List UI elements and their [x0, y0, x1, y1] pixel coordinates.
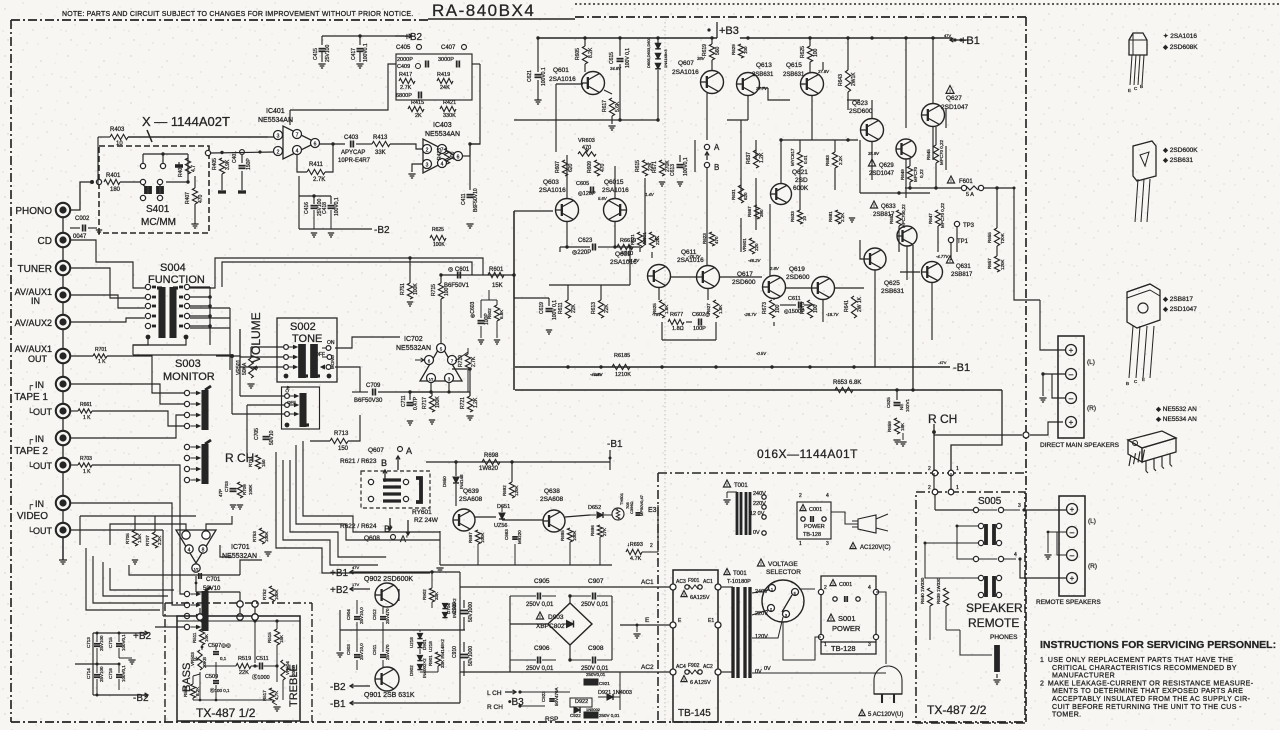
- svg-text:-B2: -B2: [330, 682, 346, 693]
- svg-text:R752: R752: [262, 589, 267, 600]
- svg-text:-B2: -B2: [374, 225, 390, 236]
- svg-text:E: E: [794, 591, 797, 596]
- AC plug (C): [858, 515, 876, 533]
- svg-text:-46.2V: -46.2V: [748, 258, 762, 263]
- svg-text:Ⓞ100 0,1: Ⓞ100 0,1: [210, 687, 230, 694]
- svg-text:R625: R625: [800, 46, 806, 58]
- svg-text:CUIT BEFORE RETURNING THE: CUIT BEFORE RETURNING THE UNIT TO THE CU…: [1052, 704, 1242, 711]
- svg-text:2SB631: 2SB631: [881, 288, 905, 295]
- svg-text:100V0.1: 100V0.1: [541, 67, 547, 86]
- svg-text:100V0,1: 100V0,1: [121, 634, 126, 651]
- svg-text:-B2: -B2: [133, 693, 149, 704]
- wire into tone box top: [237, 601, 243, 607]
- terminal minus L: [1066, 369, 1077, 380]
- svg-text:10: 10: [802, 215, 807, 221]
- svg-text:NE5532AN: NE5532AN: [396, 345, 431, 352]
- svg-text:R649: R649: [900, 169, 905, 180]
- svg-text:1.8K: 1.8K: [664, 305, 669, 314]
- svg-text:24K: 24K: [440, 85, 450, 91]
- svg-text:R698: R698: [484, 453, 499, 459]
- svg-text:R419: R419: [437, 72, 450, 78]
- svg-text:R601: R601: [489, 267, 504, 273]
- resistor R640 1W330: [927, 588, 932, 606]
- border top-left dash-dot: [11, 19, 428, 21]
- jack TAPE2 IN: [56, 431, 70, 445]
- svg-text:!: !: [873, 203, 874, 208]
- svg-text:2: 2: [928, 466, 931, 472]
- wire regulator rails: [370, 571, 460, 573]
- resistor R623 470: [709, 232, 714, 246]
- svg-text:4: 4: [296, 149, 299, 155]
- svg-text:MONITOR: MONITOR: [163, 371, 215, 383]
- wire Q623 base: [781, 139, 858, 141]
- svg-text:C403: C403: [344, 135, 359, 141]
- wire B2 block: [93, 632, 130, 634]
- VR503 20KB: [198, 650, 202, 670]
- svg-text:33K: 33K: [434, 592, 439, 600]
- svg-text:REMOTE: REMOTE: [968, 616, 1019, 630]
- svg-text:6 A125V: 6 A125V: [690, 680, 711, 686]
- svg-text:R401: R401: [106, 173, 121, 179]
- svg-text:TB-128: TB-128: [831, 644, 856, 653]
- S003 upper contacts: [184, 390, 189, 395]
- svg-text:!: !: [726, 571, 727, 575]
- svg-text:R503: R503: [183, 686, 188, 697]
- svg-text:0,22: 0,22: [919, 169, 924, 178]
- package TO-126 drawing: [1133, 141, 1156, 181]
- svg-text:◎220P: ◎220P: [572, 250, 591, 256]
- test point TP1: [948, 237, 953, 242]
- svg-text:100K: 100K: [413, 283, 419, 295]
- svg-text:VR601: VR601: [742, 238, 747, 252]
- svg-text:Q638: Q638: [544, 488, 560, 495]
- svg-text:AC2: AC2: [641, 664, 654, 671]
- svg-text:10K: 10K: [204, 634, 209, 642]
- svg-text:-11.7V: -11.7V: [627, 258, 640, 263]
- svg-text:27K: 27K: [602, 528, 607, 536]
- resistor R603 6.8K: [494, 305, 499, 321]
- svg-text:R675: R675: [800, 302, 806, 314]
- svg-text:D903: D903: [548, 614, 564, 621]
- svg-text:330K: 330K: [443, 113, 456, 119]
- svg-text:IC403: IC403: [433, 122, 452, 129]
- svg-text:RSP: RSP: [545, 716, 558, 723]
- S005 relay lower: [978, 575, 983, 580]
- svg-text:MPC70 0,22: MPC70 0,22: [939, 139, 944, 165]
- svg-text:C619: C619: [539, 302, 545, 314]
- svg-text:22K: 22K: [604, 303, 610, 313]
- svg-text:25V100: 25V100: [99, 666, 104, 682]
- jack AV/AUX1 OUT: [56, 349, 70, 363]
- svg-text:C906: C906: [534, 645, 550, 652]
- svg-text:R519: R519: [238, 656, 251, 662]
- svg-text:C001: C001: [839, 582, 852, 588]
- S401 contacts: [140, 163, 145, 168]
- resistor R613 22K: [598, 300, 603, 318]
- svg-text:C921: C921: [599, 681, 610, 686]
- svg-text:!: !: [760, 561, 761, 566]
- svg-text:-B1: -B1: [607, 439, 623, 450]
- svg-text:-4.77V: -4.77V: [936, 254, 950, 259]
- dash-dot to tone box: [165, 602, 312, 604]
- relay actuator: [416, 478, 421, 502]
- svg-text:Q629: Q629: [879, 163, 894, 169]
- svg-text:R901: R901: [428, 655, 433, 666]
- svg-text:Q615: Q615: [786, 62, 802, 69]
- wire L speaker: [1040, 300, 1065, 350]
- resistor R902 33K: [429, 588, 434, 602]
- resistor R405: [219, 158, 224, 174]
- svg-text:100P: 100P: [693, 326, 706, 332]
- svg-text:2SA1016: 2SA1016: [672, 69, 699, 76]
- svg-text:+B2: +B2: [133, 631, 152, 642]
- svg-text:R607: R607: [555, 161, 561, 173]
- svg-text:TH501: TH501: [619, 492, 624, 505]
- svg-text:┌: ┌: [27, 500, 33, 510]
- svg-text:8.2K: 8.2K: [195, 687, 200, 696]
- svg-text:0V: 0V: [753, 530, 760, 536]
- svg-text:RY601: RY601: [412, 509, 432, 516]
- wire R speaker: [1025, 432, 1027, 438]
- svg-text:R423: R423: [437, 148, 443, 160]
- VR601 220: [649, 232, 654, 248]
- svg-text:C903: C903: [346, 644, 351, 655]
- svg-text:-76.7V: -76.7V: [688, 254, 702, 259]
- resistor R671 270K: [659, 160, 664, 176]
- warning 6A125V: [681, 591, 687, 597]
- relay bars: [383, 478, 401, 481]
- svg-text:POWER: POWER: [832, 624, 861, 633]
- svg-text:R625: R625: [432, 227, 444, 233]
- voltage selector circle: [762, 580, 804, 622]
- svg-text:Q902 2SD600K: Q902 2SD600K: [364, 576, 413, 583]
- resistor R607 620: [562, 160, 567, 176]
- svg-text:4: 4: [826, 493, 829, 499]
- svg-text:R605: R605: [575, 48, 581, 60]
- svg-text:1: 1: [956, 466, 959, 472]
- TX-487 2/2 box: [916, 492, 1025, 723]
- svg-text:R515: R515: [267, 632, 272, 643]
- svg-text:6A125V: 6A125V: [690, 595, 710, 601]
- wire output devices: [871, 142, 873, 180]
- svg-text:B: B: [1140, 84, 1143, 89]
- S003 lower contacts: [184, 444, 189, 449]
- tone box entry circles: [197, 614, 203, 620]
- svg-text:2: 2: [277, 150, 280, 156]
- TB-145 terminals AC4-AC2: [670, 669, 676, 675]
- border top-right dotted: [575, 3, 1280, 5]
- phones jack: [994, 645, 1000, 672]
- A B contacts: [704, 144, 709, 149]
- svg-text:R415: R415: [411, 100, 424, 106]
- svg-text:D704: D704: [446, 603, 451, 614]
- resistor R517 4.7K: [269, 688, 274, 702]
- resistor R423 100: [444, 148, 449, 164]
- op-amp IC701 triangle: [176, 530, 216, 563]
- svg-text:OUT: OUT: [33, 407, 53, 417]
- svg-text:Q609: Q609: [615, 251, 631, 258]
- wire RC to IC403: [472, 63, 480, 65]
- svg-text:R639 1W330: R639 1W330: [936, 577, 941, 604]
- svg-text:C611: C611: [788, 296, 801, 302]
- svg-text:C409: C409: [397, 64, 410, 70]
- svg-text:TAPE 2: TAPE 2: [14, 446, 48, 457]
- S003 box wire: [133, 308, 230, 355]
- svg-text:C625: C625: [886, 397, 891, 408]
- wire fuse to speakers: [1014, 188, 1040, 300]
- resistor R519 22K: [204, 665, 236, 667]
- svg-text:◎ C601: ◎ C601: [448, 267, 470, 273]
- svg-text:◎120P: ◎120P: [578, 191, 596, 197]
- svg-text:C701: C701: [206, 577, 221, 583]
- svg-text:TB-128: TB-128: [803, 532, 821, 538]
- transistor Q625 2SB631: [864, 248, 886, 270]
- svg-text:22K: 22K: [571, 303, 577, 313]
- jack VIDEO IN: [56, 496, 70, 510]
- svg-text:2: 2: [799, 493, 802, 499]
- amp left edge wire: [513, 211, 515, 390]
- svg-text:100: 100: [775, 304, 781, 313]
- wire driver rows: [740, 120, 742, 200]
- package TO-92 drawing: [1129, 33, 1147, 55]
- svg-text:5 A: 5 A: [966, 192, 974, 198]
- resistor R511 10K: [199, 629, 204, 645]
- S002 lower group: [285, 394, 290, 399]
- svg-text:R671: R671: [652, 161, 658, 173]
- svg-text:L CH: L CH: [487, 690, 502, 697]
- svg-text:U218: U218: [409, 637, 414, 648]
- svg-text:R713: R713: [334, 431, 349, 437]
- svg-text:100K: 100K: [433, 242, 445, 248]
- svg-text:Q607: Q607: [678, 60, 694, 67]
- S003 second bank bar: [201, 591, 208, 631]
- svg-text:R661: R661: [80, 402, 92, 408]
- package TO-3P drawing: [1127, 284, 1160, 328]
- svg-text:E3: E3: [648, 507, 657, 514]
- jack VIDEO OUT: [56, 523, 70, 537]
- svg-text:ACCEPTABLY INSULATED FROM T: ACCEPTABLY INSULATED FROM THE AC SUPPLY …: [1052, 696, 1251, 703]
- svg-text:R407: R407: [185, 192, 191, 204]
- ground below video jack: [62, 537, 64, 560]
- S003 lower bar: [201, 444, 208, 484]
- -B2 rail lower: [299, 228, 372, 230]
- wire AC2 line: [460, 671, 672, 673]
- border left: [10, 20, 12, 722]
- svg-text:4: 4: [188, 548, 191, 554]
- resistor R752 100K: [269, 586, 274, 602]
- svg-text:100K: 100K: [572, 530, 577, 541]
- svg-text:+: +: [1070, 505, 1075, 514]
- resistor R605 8.2K: [584, 38, 586, 46]
- wire output node: [860, 192, 930, 194]
- svg-text:NE5534AN: NE5534AN: [258, 117, 293, 124]
- svg-text:(R): (R): [1087, 405, 1096, 412]
- svg-text:120V: 120V: [755, 634, 768, 640]
- svg-text:1/2: 1/2: [429, 378, 434, 382]
- svg-text:T-10180P: T-10180P: [727, 579, 751, 585]
- svg-text:C907: C907: [588, 578, 604, 585]
- fuse F902: [685, 670, 689, 674]
- svg-text:B: B: [1126, 381, 1129, 386]
- svg-text:R621 / R623: R621 / R623: [340, 458, 377, 465]
- S002 contacts left: [284, 345, 289, 350]
- resistor R721 1.2K: [467, 396, 472, 412]
- wire RC left: [290, 64, 396, 110]
- wire R403 to opamp: [98, 136, 110, 138]
- svg-text:MANUFACTURER: MANUFACTURER: [1052, 673, 1115, 680]
- svg-text:100V 0,1: 100V 0,1: [625, 48, 631, 68]
- svg-text:1: 1: [799, 541, 802, 547]
- svg-text:17V: 17V: [352, 582, 359, 587]
- svg-text:REMOTE SPEAKERS: REMOTE SPEAKERS: [1036, 599, 1101, 606]
- svg-text:TP1: TP1: [957, 239, 969, 245]
- wire Q639 Q638 link: [475, 516, 496, 518]
- svg-text:IN: IN: [35, 499, 44, 509]
- bridge output wires: [569, 596, 571, 603]
- svg-text:E: E: [645, 617, 650, 624]
- svg-text:!: !: [802, 507, 803, 511]
- svg-text:VIDEO: VIDEO: [17, 511, 48, 522]
- svg-text:A: A: [714, 143, 720, 152]
- svg-text:APYCAP: APYCAP: [341, 150, 365, 156]
- terminal plus R: [1066, 417, 1077, 428]
- resistor R667 390: [754, 205, 759, 219]
- svg-text:R CH: R CH: [928, 412, 957, 426]
- border bottom: [11, 721, 1026, 723]
- svg-text:0047: 0047: [73, 234, 87, 240]
- svg-text:E: E: [1128, 88, 1131, 93]
- svg-text:C714: C714: [86, 668, 91, 679]
- capacitor C401 150P: [239, 165, 246, 167]
- svg-text:C613: C613: [670, 164, 676, 176]
- svg-text:R421: R421: [443, 100, 456, 106]
- svg-text:C602◎: C602◎: [692, 312, 710, 318]
- S005 relay upper: [978, 523, 983, 528]
- svg-text:4: 4: [868, 585, 871, 591]
- svg-text:(L): (L): [1088, 518, 1096, 525]
- svg-text:└: └: [27, 461, 33, 471]
- jack PHONO: [56, 203, 70, 217]
- svg-text:C709: C709: [366, 383, 381, 389]
- svg-text:C605: C605: [576, 181, 589, 187]
- svg-text:AV/AUX2: AV/AUX2: [15, 318, 52, 328]
- svg-text:PHONO: PHONO: [15, 206, 52, 217]
- svg-text:B6F50V10: B6F50V10: [473, 188, 479, 212]
- svg-text:2K: 2K: [415, 113, 422, 119]
- wire IC401 output: [319, 143, 345, 145]
- svg-text:2000P: 2000P: [397, 57, 413, 63]
- svg-text:R696: R696: [590, 525, 595, 536]
- svg-text:!: !: [949, 88, 950, 94]
- svg-text:C663: C663: [504, 529, 509, 540]
- svg-text:C703: C703: [224, 481, 229, 492]
- svg-text:-B1: -B1: [953, 362, 970, 374]
- svg-text:180: 180: [110, 187, 121, 193]
- op-amp IC702 triangle up: [420, 345, 462, 381]
- svg-text:!: !: [539, 614, 540, 619]
- svg-text:R677: R677: [670, 312, 683, 318]
- svg-text:2: 2: [928, 485, 931, 491]
- svg-text:-47V: -47V: [938, 360, 947, 365]
- svg-text:Q639: Q639: [463, 488, 479, 495]
- wire loop 2: [290, 460, 386, 557]
- resistor R629 100: [738, 44, 743, 58]
- resistor R715 100: [438, 283, 443, 299]
- svg-text:2: 2: [426, 148, 429, 154]
- wire minus terminals ground: [1043, 374, 1065, 396]
- -B1 bus: [515, 366, 950, 368]
- svg-text:2SA1016: 2SA1016: [549, 76, 576, 83]
- wire Q601 collector row: [604, 90, 612, 94]
- wire transformer 0V to right: [752, 672, 886, 674]
- wire selector to S001: [804, 592, 821, 601]
- svg-text:M9220: M9220: [517, 530, 522, 544]
- svg-text:Q627: Q627: [946, 95, 962, 102]
- resistor R901 33K: [435, 652, 440, 666]
- svg-text:25V470: 25V470: [385, 608, 390, 624]
- svg-text:!: !: [861, 712, 862, 716]
- +B1 arrow label: [350, 571, 370, 573]
- top bus right: [740, 37, 952, 39]
- svg-text:25V10,0: 25V10,0: [359, 607, 364, 624]
- svg-text:OFF: OFF: [287, 400, 296, 405]
- svg-text:C912: C912: [372, 609, 377, 620]
- svg-text:R647: R647: [928, 213, 933, 224]
- svg-text:D921 1N4003: D921 1N4003: [598, 690, 632, 696]
- svg-text:2SB631: 2SB631: [752, 72, 774, 78]
- svg-text:Q6015: Q6015: [604, 179, 624, 186]
- wire IC702 output: [452, 368, 470, 370]
- resistor R611 22K: [565, 300, 570, 318]
- svg-text:MPC700,22: MPC700,22: [901, 204, 906, 228]
- svg-text:MENTS TO DETERMINE THAT EX: MENTS TO DETERMINE THAT EXPOSED PARTS AR…: [1052, 688, 1243, 695]
- svg-text:C507◎◎: C507◎◎: [208, 643, 231, 649]
- wire remote plus L: [1024, 509, 1066, 511]
- resistor R619 560: [709, 44, 714, 60]
- svg-text:CRITICAL CHARACTERISTICS R: CRITICAL CHARACTERISTICS RECOMMENDED BY: [1052, 665, 1237, 672]
- label AC120V U: [859, 710, 865, 716]
- svg-text:R717: R717: [422, 397, 428, 409]
- wire IC401 inputs: [128, 136, 274, 138]
- svg-text:◆ NE5532 AN: ◆ NE5532 AN: [1156, 406, 1197, 413]
- S401 coil left: [140, 179, 145, 184]
- resistor R515 15K: [274, 629, 279, 645]
- S002 switch bars: [298, 344, 306, 378]
- svg-text:D902: D902: [409, 665, 414, 676]
- wire bass net: [199, 672, 201, 700]
- resistor R609 470: [594, 160, 599, 176]
- wire top to R751: [409, 258, 411, 283]
- resistor R643 2W1K: [845, 70, 850, 92]
- svg-text:C415: C415: [313, 48, 319, 60]
- svg-text:OUT: OUT: [28, 354, 48, 364]
- svg-text:10: 10: [116, 141, 123, 147]
- jack ground bus: [62, 210, 64, 560]
- wire IC403 in/out: [462, 155, 470, 157]
- svg-text:◆ 2SD608K: ◆ 2SD608K: [1163, 44, 1198, 51]
- svg-text:560: 560: [715, 46, 721, 55]
- svg-text:1210K: 1210K: [615, 372, 631, 378]
- remote terminal minus R: [1067, 550, 1078, 561]
- wire remote plus R: [1020, 559, 1066, 578]
- svg-text:250V 0,01: 250V 0,01: [526, 666, 554, 672]
- svg-text:(L): (L): [1087, 359, 1095, 366]
- svg-text:C713: C713: [86, 637, 91, 648]
- svg-text:3: 3: [277, 134, 280, 140]
- svg-text:C922: C922: [570, 713, 581, 718]
- svg-text:6: 6: [457, 155, 460, 161]
- svg-text:R681: R681: [828, 211, 833, 222]
